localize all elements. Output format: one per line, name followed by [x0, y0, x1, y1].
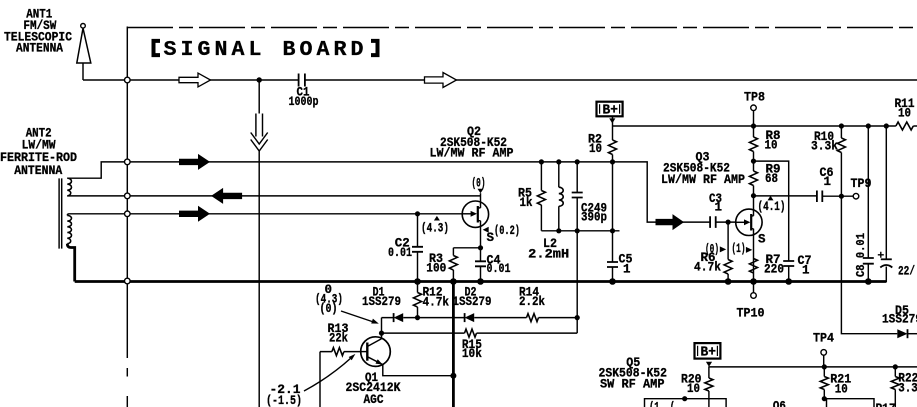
svg-text:220: 220	[764, 263, 784, 277]
wire tank to Q3 gate	[613, 162, 736, 222]
open arrow (signal flow)	[425, 73, 457, 88]
wire R15 row	[382, 332, 578, 334]
svg-text:1: 1	[623, 262, 631, 276]
resistor R12	[417, 282, 419, 318]
junction nodes tank bottom	[556, 228, 561, 233]
svg-text:1SS279: 1SS279	[453, 295, 492, 309]
svg-text:(1. (: (1. (	[649, 401, 675, 407]
wire down from C1 node	[258, 80, 260, 407]
svg-text:1SS279: 1SS279	[362, 295, 401, 309]
connector node (board edge)	[125, 159, 131, 165]
diode D2	[464, 313, 466, 322]
svg-text:(0): (0)	[472, 177, 486, 191]
transistor Q3 (FET)	[736, 209, 762, 235]
svg-text:1k: 1k	[520, 196, 533, 210]
thick wire AGC line down	[452, 282, 455, 407]
svg-text:1SS279: 1SS279	[882, 312, 917, 326]
capacitor C3	[710, 216, 716, 228]
black arrow left (coil1-bottom wire)	[211, 188, 242, 204]
B+ supply box (SW section)	[695, 343, 721, 359]
wire diode row	[382, 317, 578, 319]
svg-text:1: 1	[824, 175, 832, 189]
black arrow right	[179, 154, 210, 170]
svg-text:2.2k: 2.2k	[519, 295, 545, 309]
capacitor C1	[299, 74, 305, 87]
open down arrow (signal flow)	[256, 114, 263, 137]
B+ supply box	[597, 102, 623, 117]
svg-text:(0): (0)	[320, 302, 338, 316]
black arrow right (gate wire)	[179, 206, 210, 222]
svg-text:10: 10	[765, 139, 778, 153]
wire tank bottom	[541, 230, 619, 232]
connector node (board edge)	[125, 77, 131, 83]
svg-text:LW/MW RF AMP: LW/MW RF AMP	[430, 147, 514, 161]
svg-text:10: 10	[835, 383, 848, 397]
svg-text:10: 10	[898, 107, 911, 121]
wire feedback vertical	[576, 231, 578, 333]
capacitor C6	[817, 191, 822, 203]
svg-text:ANTENNA: ANTENNA	[14, 164, 62, 178]
resistor R9	[753, 161, 755, 196]
wire base feed down	[319, 352, 321, 407]
resistor R8	[753, 126, 755, 137]
svg-text:Q6: Q6	[773, 400, 786, 407]
connector node (board edge)	[125, 278, 131, 284]
wire B+ vertical	[612, 116, 614, 281]
svg-text:3.3k: 3.3k	[811, 140, 838, 154]
wire B+ rail (SW)	[709, 366, 917, 378]
resistor R15	[465, 329, 477, 337]
node Q3 drain	[751, 193, 756, 198]
capacitor C7	[788, 196, 790, 282]
wire ANT1 to board	[83, 79, 125, 81]
svg-text:100: 100	[426, 262, 446, 276]
capacitor C4	[480, 248, 482, 282]
black arrow right (Q3 feed)	[656, 214, 685, 230]
ferrite rod	[59, 178, 62, 248]
svg-text:R17: R17	[876, 402, 896, 407]
antenna ANT1 symbol	[81, 24, 86, 29]
node Q2 source	[478, 245, 483, 250]
svg-text:(1): (1)	[732, 242, 746, 256]
wire coil2 top (gate feed)	[67, 214, 462, 216]
wire FM/SW signal (top)	[130, 79, 917, 81]
resistor R10	[840, 126, 842, 196]
capacitor C5	[607, 262, 618, 267]
wire Q1 collector	[381, 318, 383, 339]
svg-text:SW RF AMP: SW RF AMP	[600, 378, 665, 392]
svg-text:AGC: AGC	[364, 393, 384, 407]
node gate/R6	[726, 220, 731, 225]
svg-text:10k: 10k	[462, 347, 482, 361]
svg-text:(-1.5): (-1.5)	[266, 394, 302, 407]
title SIGNAL BOARD	[154, 41, 161, 55]
resistor R13	[320, 351, 361, 353]
inductor L2	[558, 162, 560, 231]
svg-text:TP4: TP4	[813, 332, 834, 346]
svg-text:(4.1): (4.1)	[758, 200, 786, 214]
svg-text:3.3k: 3.3k	[898, 382, 917, 396]
resistor R5	[540, 162, 542, 231]
wire LW/MW tank rail	[130, 161, 613, 163]
svg-text:TP10: TP10	[737, 307, 765, 321]
wire coil1 bottom (to Q2 drain)	[67, 195, 480, 197]
node emitter/AGC line	[450, 373, 456, 379]
svg-text:C8 0.01: C8 0.01	[854, 233, 868, 277]
svg-text:1: 1	[802, 264, 810, 278]
svg-text:22/: 22/	[898, 265, 915, 279]
transistor Q2 (FET)	[462, 201, 488, 227]
svg-text:10: 10	[687, 382, 700, 396]
diode D1	[393, 313, 395, 322]
svg-text:0.01: 0.01	[388, 246, 412, 260]
node gate/C2	[415, 211, 420, 216]
svg-text:390p: 390p	[581, 211, 607, 225]
capacitor C8	[867, 126, 869, 282]
svg-text:10: 10	[589, 142, 602, 156]
resistor R3	[452, 248, 454, 282]
node R10/C6/TP9	[839, 194, 844, 199]
capacitor C249	[576, 162, 578, 231]
test point TP9	[853, 193, 859, 199]
svg-text:S: S	[758, 233, 766, 247]
svg-text:68: 68	[765, 172, 778, 186]
svg-text:FERRITE-ROD: FERRITE-ROD	[0, 151, 77, 165]
junction node	[257, 77, 262, 82]
connector node (board edge)	[125, 211, 131, 217]
electrolytic capacitor 22uF	[868, 126, 886, 282]
coil box 2 (clipped)	[827, 399, 875, 407]
wire B+ rail to right	[613, 125, 917, 127]
coil lower winding	[67, 215, 71, 243]
svg-text:SIGNAL BOARD: SIGNAL BOARD	[164, 38, 368, 62]
resistor R22	[893, 364, 898, 369]
wire drain to C6/TP9	[754, 195, 854, 197]
junction nodes tank top	[539, 159, 544, 164]
resistor R7	[750, 259, 758, 273]
svg-text:2.2mH: 2.2mH	[528, 247, 569, 261]
resistor R20	[705, 378, 713, 391]
open arrow (signal flow)	[179, 73, 211, 87]
resistor R11	[896, 122, 913, 130]
svg-text:0.01: 0.01	[487, 262, 511, 276]
transistor Q1 (BJT)	[361, 337, 391, 367]
board border top (dashed)	[127, 27, 917, 29]
test point TP10	[753, 282, 755, 293]
node diode row / feedback line	[575, 315, 580, 320]
junction nodes on ground bus	[414, 278, 421, 285]
resistor R2	[609, 140, 617, 154]
svg-text:4.7k: 4.7k	[423, 296, 450, 310]
resistor R6	[727, 222, 729, 281]
diode D5	[897, 329, 907, 338]
wire coil1 top to board	[67, 162, 124, 178]
svg-text:ANTENNA: ANTENNA	[16, 42, 63, 56]
junction nodes on B+ rail	[751, 123, 756, 128]
svg-text:(4.3): (4.3)	[421, 222, 449, 236]
node collector/R15	[379, 331, 384, 336]
wire R9 bypass	[754, 161, 789, 196]
wire down to D5	[841, 196, 897, 334]
wire source to R3	[453, 247, 480, 249]
resistor R14	[527, 314, 539, 322]
capacitor C2	[417, 214, 419, 282]
node R12/diode row	[415, 315, 420, 320]
svg-text:B+: B+	[603, 104, 619, 119]
svg-text:1000p: 1000p	[289, 95, 319, 109]
board border left	[126, 27, 128, 407]
connector node (board edge)	[125, 193, 131, 199]
coil box (SW tank, clipped)	[645, 399, 727, 407]
coil upper winding	[67, 178, 71, 196]
svg-text:LW/MW RF AMP: LW/MW RF AMP	[661, 173, 745, 187]
wire Q2 drain	[480, 193, 482, 208]
svg-text:1: 1	[715, 200, 723, 214]
ground bus wire	[75, 280, 887, 283]
svg-text:22k: 22k	[329, 332, 348, 346]
wire Q1 emitter	[383, 365, 454, 376]
svg-text:TP8: TP8	[744, 91, 765, 105]
svg-text:4.7k: 4.7k	[694, 261, 721, 275]
resistor R21	[822, 364, 827, 369]
node R8/R9	[751, 159, 756, 164]
svg-text:B+: B+	[701, 346, 717, 361]
svg-text:(0.2): (0.2)	[494, 224, 520, 238]
wire coil2 bottom to ground bus	[67, 244, 74, 282]
